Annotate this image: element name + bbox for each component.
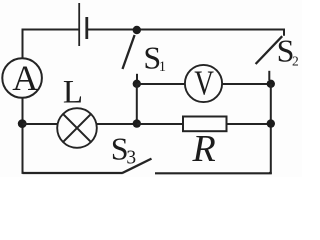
node: left lamp junction dot [18, 119, 27, 128]
wire right vertical down to bottom-right corner [269, 84, 271, 173]
node: middle junction dot [133, 119, 141, 127]
svg-text:3: 3 [126, 147, 136, 168]
wire resistor to right junction [227, 123, 271, 125]
svg-text:L: L [63, 75, 83, 111]
wire bottom left segment [23, 172, 123, 174]
wire voltmeter branch left [137, 83, 185, 85]
wire lamp branch left [23, 123, 59, 125]
switch S3 blade (open) [122, 159, 151, 173]
voltmeter U=V circle [185, 65, 222, 102]
switch S2 fixed contact stub [268, 71, 270, 80]
battery cell short plate (-) [85, 17, 88, 39]
switch S2 blade (open) [256, 36, 283, 64]
wire lamp to middle junction [96, 123, 137, 125]
svg-text:A: A [12, 58, 38, 98]
wire left vertical ammeter to bottom-left corner [23, 98, 25, 173]
node: S2 lower junction dot [267, 80, 275, 88]
node: S1 lower junction dot [133, 80, 141, 88]
wire battery to S2 top with corner hook down [88, 30, 284, 36]
wire bottom right segment [155, 172, 272, 174]
lamp L circle [57, 108, 97, 148]
lamp X cross stroke 2 [63, 114, 91, 142]
wire middle vertical (S1 node down to lamp-resistor wire) [136, 84, 138, 124]
switch S1 fixed contact stub [136, 74, 138, 81]
node: right junction dot [267, 119, 275, 127]
svg-text:1: 1 [159, 59, 166, 75]
wire top-left corner from ammeter to battery [23, 30, 79, 59]
battery cell long plate (+) [78, 3, 80, 46]
svg-text:R: R [191, 128, 215, 170]
switch S1 pivot junction dot [133, 26, 141, 34]
wire middle junction to resistor [137, 123, 183, 125]
wire voltmeter branch right [222, 83, 271, 85]
svg-text:V: V [194, 63, 214, 102]
resistor R box [183, 117, 227, 132]
ammeter circle [2, 58, 42, 98]
switch S1 blade (open) [123, 35, 135, 69]
svg-text:2: 2 [292, 53, 299, 68]
lamp X cross stroke 1 [63, 114, 91, 142]
